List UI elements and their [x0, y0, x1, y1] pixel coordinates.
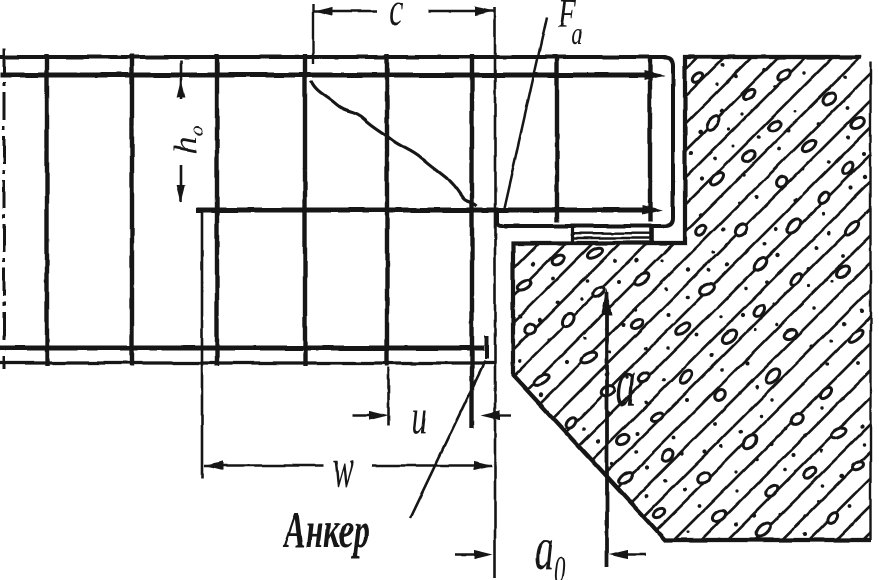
dimension a0 left arrow line [455, 553, 477, 555]
svg-text:w: w [333, 436, 354, 499]
bearing plate under beam end [572, 226, 652, 244]
dimension w line left part [204, 464, 324, 466]
dimension h0 line [180, 60, 183, 100]
a0 left arrowhead [474, 549, 493, 558]
svg-text:a: a [616, 344, 636, 422]
dimension w line right part [372, 464, 492, 466]
dimension c left arrowhead [314, 6, 333, 15]
beam outline (dapped end) [0, 57, 673, 226]
stirrup 7 (dap) [555, 57, 559, 222]
svg-text:Анкер: Анкер [282, 503, 370, 559]
top rebar arrowhead [644, 70, 665, 80]
u left arrowhead [369, 411, 388, 420]
u left extension line [387, 367, 390, 425]
stirrup 2 [130, 54, 134, 366]
wall right edge [869, 62, 871, 540]
dimension u right arrow line [496, 414, 511, 416]
stirrup 6 (extends to u dimension) [470, 54, 474, 428]
stirrup 3 [215, 54, 219, 366]
inclined crack line [311, 81, 477, 206]
stirrup 1 [45, 54, 49, 366]
stirrup 5 [385, 54, 389, 366]
reference line at beam end face [494, 7, 497, 578]
dimension c line right part [428, 10, 494, 12]
svg-text:c: c [389, 0, 403, 36]
dimension c right arrowhead [475, 6, 494, 15]
u right arrowhead [481, 411, 500, 420]
h0 bottom arrowhead [177, 185, 186, 203]
a0 right arrowhead [609, 549, 628, 558]
dimension a0 right arrow line [625, 553, 646, 555]
dimension c extension line [312, 4, 314, 64]
Fa leader line [504, 17, 547, 208]
dap bottom reinforcement bar [196, 208, 646, 213]
wall and support outline [513, 57, 871, 540]
svg-text:u: u [412, 390, 427, 446]
w extension line [201, 210, 204, 478]
dap rebar arrowhead [642, 205, 663, 215]
w left arrowhead [204, 461, 223, 470]
anchor leader line [410, 361, 485, 518]
top reinforcement bar [0, 73, 648, 78]
dimension c line left part [314, 10, 377, 12]
w right arrowhead [474, 461, 493, 470]
h0 top arrowhead [177, 80, 186, 98]
anchor hook at bar end [485, 336, 489, 359]
main bottom reinforcement bar [0, 346, 484, 351]
stirrup 8 (dap end) [648, 55, 652, 222]
stirrup 4 [303, 54, 307, 366]
dimension u left arrow line [352, 414, 371, 416]
beam bottom edge [0, 361, 495, 364]
vertical arrow a in support [605, 292, 609, 567]
break line at left edge [3, 48, 6, 369]
